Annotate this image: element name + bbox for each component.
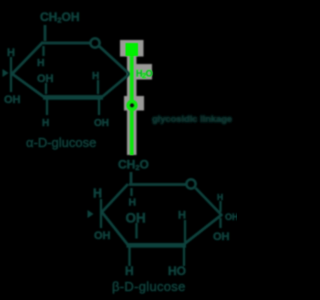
ring oxygen O circle (90, 38, 99, 47)
bond C5-H down (42, 46, 44, 56)
green bond line lower (130, 110, 134, 156)
svg-text:H: H (217, 192, 223, 202)
bond C1-C2 (102, 74, 130, 98)
bond O'-C1' (196, 188, 223, 216)
ring O to C1 bond (100, 47, 131, 75)
bond C5'-O' top edge (129, 183, 186, 186)
bond C3-H down (46, 99, 48, 115)
thick front edge C2'-C3' (127, 243, 187, 248)
svg-text:H: H (37, 57, 45, 69)
svg-text:OH: OH (94, 118, 109, 129)
svg-text:β-D-glucose: β-D-glucose (112, 279, 186, 294)
C4' wedge (88, 210, 94, 218)
svg-text:α-D-glucose: α-D-glucose (26, 135, 96, 150)
bond C1'-C2' (183, 215, 222, 246)
bond C2-H up (97, 80, 99, 94)
green square marker (126, 43, 139, 56)
gray halo behind green bond line (120, 40, 152, 155)
svg-text:H: H (178, 210, 186, 222)
svg-text:H: H (125, 264, 134, 278)
bond C1'-H up (219, 201, 221, 212)
bond C1'-OH down (219, 218, 221, 228)
bond C3'-H down (128, 247, 130, 266)
C4 wedge (3, 69, 9, 77)
svg-text:OH: OH (225, 212, 237, 222)
top ring labels (4, 10, 109, 150)
bottom ring labels (93, 158, 239, 295)
green glycosidic O circle (128, 101, 136, 109)
svg-text:H: H (92, 71, 99, 82)
bond C3'-C4' (101, 211, 128, 245)
ring oxygen O' circle (186, 179, 195, 188)
svg-text:H: H (129, 197, 137, 209)
svg-text:H: H (93, 187, 102, 201)
bond C4-C5 (11, 42, 43, 75)
bond C5-CH2OH (44, 25, 47, 41)
thick front edge C2-C3 (43, 95, 103, 100)
bond CH2-C5' (130, 172, 133, 183)
green bond line upper (130, 53, 134, 102)
svg-text:OH: OH (37, 73, 54, 85)
svg-text:H: H (42, 118, 49, 129)
bond C3-C4 (11, 73, 44, 97)
svg-text:H: H (7, 47, 15, 59)
bottom ring: glucose 2 (88, 172, 223, 266)
bond C5-O ring top edge (42, 42, 90, 45)
green glycosidic bond assembly (126, 43, 153, 155)
svg-text:HO: HO (168, 264, 186, 278)
svg-text:glycosidic linkage: glycosidic linkage (152, 114, 232, 124)
svg-text:OH: OH (126, 211, 146, 226)
svg-text:OH: OH (4, 94, 21, 106)
bond C2-OH down (98, 99, 100, 115)
bond C4'-H up (100, 199, 102, 228)
bond C2'-H up (184, 220, 186, 242)
bond C3'-OH up (135, 223, 137, 239)
svg-text:OH: OH (94, 230, 111, 242)
bond C2'-OH down (183, 247, 185, 266)
svg-text:CH2O: CH2O (118, 158, 149, 173)
svg-text:OH: OH (213, 231, 230, 243)
bond C4-H up (10, 57, 12, 92)
bond C4'-C5' (101, 184, 128, 213)
bond C3-OH up (45, 83, 47, 94)
top ring: glucose 1 (3, 25, 131, 115)
bond C5'-OH down (130, 188, 132, 196)
